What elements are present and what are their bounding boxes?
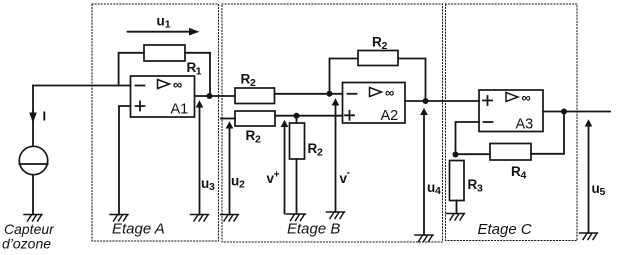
svg-text:R: R: [308, 141, 318, 156]
node A1 output junction: [207, 93, 213, 99]
svg-text:2: 2: [255, 133, 261, 145]
svg-text:Etage B: Etage B: [287, 221, 340, 238]
op-amp U2 (A2 box): [343, 83, 406, 124]
svg-text:-: -: [347, 167, 351, 179]
ground (u4): [415, 235, 433, 242]
op-amp A2 internals: minus pin, plus pin, triangle, infinity: [348, 93, 357, 95]
wire R1 left to feedback node: [119, 53, 144, 86]
ground (v-): [327, 212, 345, 219]
svg-text:2: 2: [382, 40, 388, 52]
ground (R2c): [287, 214, 306, 221]
svg-text:∞: ∞: [522, 90, 531, 105]
ground (u3): [191, 215, 209, 222]
svg-text:R: R: [468, 177, 478, 192]
stage box Etage C (dotted border): [446, 4, 578, 241]
wire A3 output: [543, 111, 610, 113]
stage box Etage B (dotted border): [222, 4, 443, 242]
resistor R2a (to A2 inverting input): [235, 88, 275, 104]
svg-text:R: R: [511, 164, 521, 179]
wire R2d right down to A2 output node: [398, 59, 426, 102]
ground (R3): [447, 214, 465, 221]
ground (sensor): [24, 215, 42, 222]
node A3 output junction: [561, 109, 567, 115]
svg-text:A3: A3: [516, 117, 534, 133]
wire A2 output to A3 noninverting input: [405, 100, 479, 102]
svg-text:R: R: [372, 35, 382, 50]
node R3/R4 junction: [453, 152, 459, 158]
svg-text:5: 5: [600, 186, 606, 198]
wire stage B lower input: [221, 118, 235, 120]
voltage arrow u5: [588, 125, 590, 233]
voltage arrow u3: [199, 106, 201, 215]
stage box Etage A (dotted border): [92, 4, 219, 241]
svg-text:1: 1: [165, 18, 171, 30]
resistor R3 (vertical): [450, 161, 465, 201]
svg-text:R: R: [246, 128, 256, 143]
node A2 noninverting junction: [294, 113, 300, 119]
wire R1 right down to output node: [185, 53, 210, 96]
current source CS1 (capteur d'ozone): [19, 146, 47, 174]
svg-text:Etage C: Etage C: [478, 221, 532, 238]
wire current source to ground: [32, 175, 34, 215]
wire R3 bottom to ground: [456, 201, 458, 214]
svg-text:2: 2: [239, 179, 245, 191]
svg-text:3: 3: [477, 182, 483, 194]
wire A1 noninverting input to ground: [119, 106, 131, 215]
svg-text:A1: A1: [171, 102, 189, 118]
svg-text:3: 3: [209, 181, 215, 193]
wire R2c top to node: [296, 116, 298, 123]
wire R2c bottom to ground: [296, 159, 298, 214]
ground (u5): [580, 233, 598, 240]
svg-text:Etage A: Etage A: [112, 221, 165, 238]
op-amp A3 internals: plus pin, minus pin, triangle, infinity: [483, 96, 492, 105]
resistor R2b (to A2 noninverting input): [235, 111, 275, 126]
wire sensor to A1 inverting input: [33, 85, 131, 87]
voltage arrow u2: [229, 127, 231, 215]
current arrow I (arrowhead on sensor wire): [32, 111, 34, 118]
svg-text:I: I: [43, 109, 47, 124]
wire node to R4: [456, 153, 491, 155]
voltage arrow v-: [335, 104, 337, 212]
svg-text:1: 1: [196, 66, 202, 78]
svg-text:A2: A2: [381, 108, 399, 124]
svg-text:u: u: [231, 174, 239, 189]
svg-text:∞: ∞: [173, 77, 182, 92]
voltage arrow u4: [423, 114, 425, 236]
resistor R2c (vertical to ground): [290, 123, 305, 159]
resistor R4: [490, 144, 531, 161]
ground (u2): [221, 215, 239, 222]
wire A3 inverting input to R3/R4 node: [456, 122, 480, 155]
svg-text:u: u: [201, 176, 209, 191]
wire R4 right up to A3 output node: [531, 112, 564, 154]
voltage arrow u1: [128, 31, 190, 33]
svg-text:4: 4: [521, 169, 527, 181]
wire A1 output to stage B resistor R2a: [195, 95, 236, 97]
resistor R1: [144, 45, 185, 61]
op-amp U1 (A1 box): [131, 76, 195, 117]
svg-text:∞: ∞: [385, 85, 394, 100]
svg-text:u: u: [592, 181, 600, 196]
wire R2a right to A2 inverting input: [275, 93, 343, 95]
svg-text:2: 2: [250, 77, 256, 89]
ground (A1 + input): [110, 215, 128, 222]
wire feedback up from A2 inverting node: [330, 59, 359, 94]
node A2 output junction: [423, 98, 429, 104]
svg-text:u: u: [157, 14, 165, 29]
op-amp A1 internals: minus pin, plus pin, triangle, infinity: [136, 85, 145, 87]
resistor R2d (A2 feedback): [358, 51, 398, 66]
op-amp U3 (A3 box): [479, 90, 543, 132]
svg-text:4: 4: [435, 185, 441, 197]
wire sensor vertical drop: [32, 86, 34, 147]
svg-text:R: R: [241, 72, 251, 87]
svg-text:2: 2: [317, 146, 323, 158]
voltage arrow v+: [284, 126, 286, 214]
node A2 inverting input junction: [327, 91, 333, 97]
svg-text:d’ozone: d’ozone: [2, 236, 51, 252]
svg-text:+: +: [274, 169, 280, 181]
wire R2b right to A2 noninverting input: [275, 115, 343, 117]
svg-text:u: u: [427, 180, 435, 195]
